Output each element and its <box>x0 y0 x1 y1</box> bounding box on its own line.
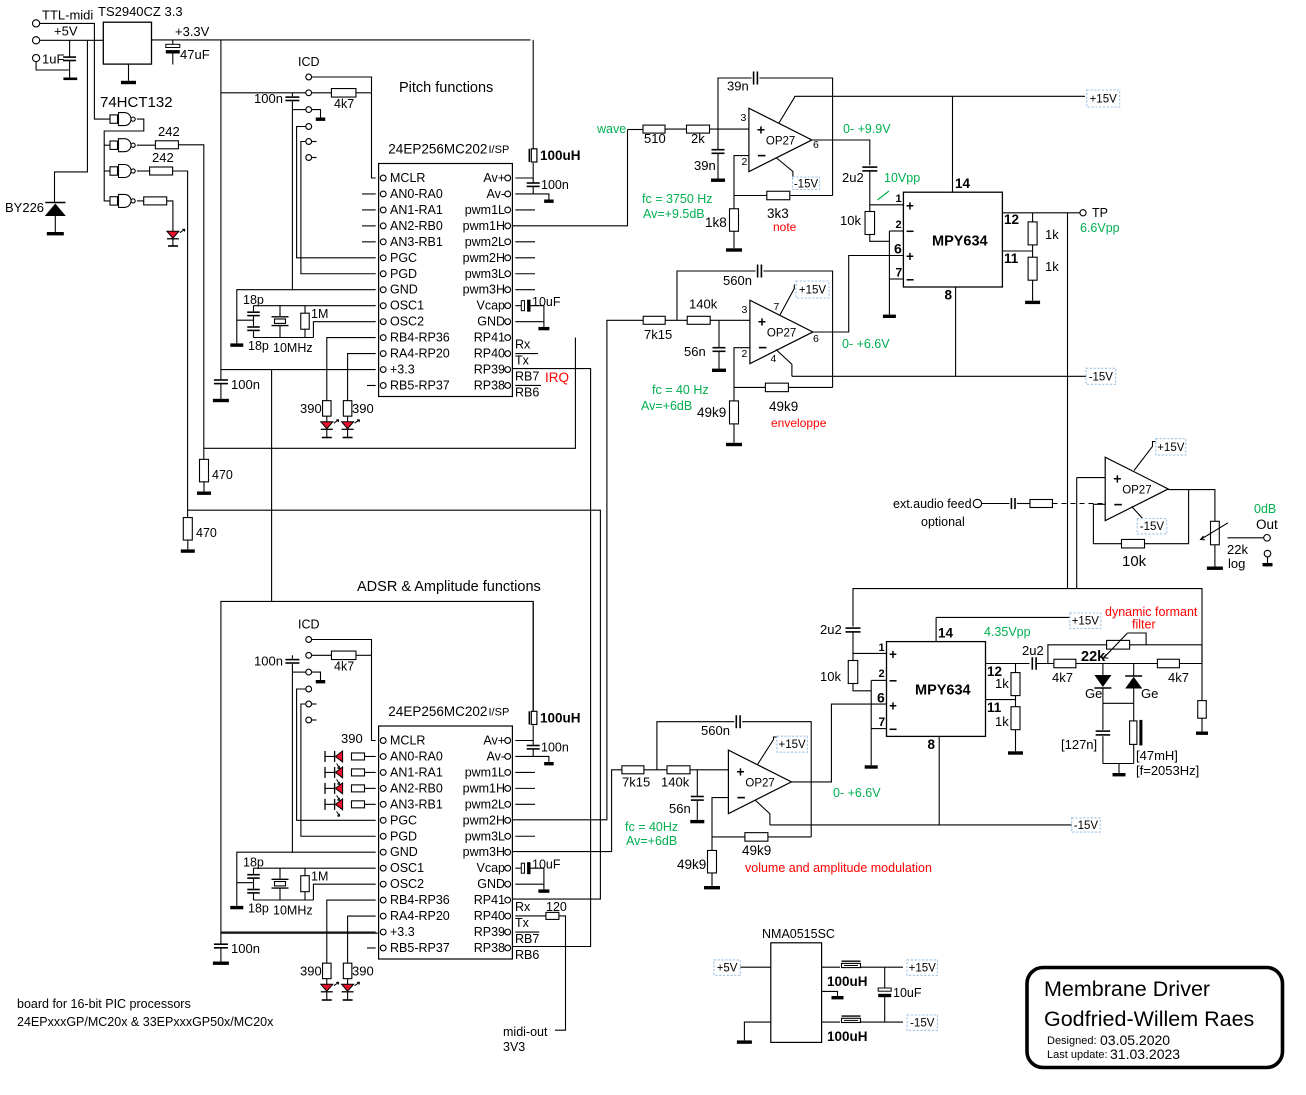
label 242a <box>158 124 180 139</box>
label filter <box>1132 618 1156 632</box>
label 10uF U2 <box>532 858 561 872</box>
capacitor 100n icd1 <box>285 97 299 100</box>
svg-text:1M: 1M <box>311 870 328 884</box>
label RB6 U2 <box>515 948 539 962</box>
svg-text:+: + <box>906 198 914 213</box>
label 470a <box>212 468 233 482</box>
potentiometer 22k log <box>1201 521 1229 545</box>
capacitor 18p b U1 <box>247 327 260 330</box>
svg-text:−: − <box>889 721 897 737</box>
resistor 242b <box>150 167 173 175</box>
connector ICD1 pin1 <box>306 74 312 80</box>
wire Av- hook U1 <box>515 186 533 194</box>
wire 56n stem vol <box>696 770 698 797</box>
svg-text:Out: Out <box>1256 517 1278 532</box>
wire pin7 link mpy2 <box>871 728 886 730</box>
wire LED b lead U1 <box>347 430 349 437</box>
svg-text:7: 7 <box>896 266 903 280</box>
wire 4k7a to diode node <box>1076 663 1158 665</box>
svg-text:4: 4 <box>771 353 777 365</box>
resistor 10k buffer <box>1122 539 1145 548</box>
label pin14 mpy1 <box>955 176 971 191</box>
label 1k b <box>1045 259 1059 274</box>
wire cap to resistor ext <box>1017 503 1030 505</box>
svg-text:6.6Vpp: 6.6Vpp <box>1080 221 1120 235</box>
svg-text:1k: 1k <box>1045 259 1059 274</box>
svg-text:pwm3H: pwm3H <box>463 283 505 297</box>
svg-text:AN3-RB1: AN3-RB1 <box>390 235 443 249</box>
svg-text:PGC: PGC <box>390 813 417 827</box>
wire TP to formant rail <box>1068 213 1203 664</box>
connector ICD1 pin3 <box>306 107 312 113</box>
label 100n c4 <box>231 941 260 956</box>
svg-text:Av-: Av- <box>486 749 505 763</box>
svg-text:TP: TP <box>1092 206 1108 220</box>
svg-text:AN1-RA1: AN1-RA1 <box>390 765 443 779</box>
power +15V box opamp2 <box>796 281 829 298</box>
svg-text:6: 6 <box>894 241 902 257</box>
title Membrane Driver <box>1044 977 1210 1001</box>
connector ICD2 pin5 <box>306 701 312 707</box>
svg-text:GND: GND <box>477 877 505 891</box>
label midi-out <box>503 1025 548 1039</box>
svg-text:14: 14 <box>955 176 971 191</box>
svg-text:AN0-RA0: AN0-RA0 <box>390 749 443 763</box>
svg-text:560n: 560n <box>701 723 730 738</box>
wire Vcap lead U2 <box>515 867 521 869</box>
svg-text:RB6: RB6 <box>515 948 539 962</box>
svg-text:510: 510 <box>644 131 666 146</box>
wire AN3 led terminal U2 <box>324 799 326 810</box>
wire opamp3 -V pin <box>1132 507 1143 519</box>
wire 390a to LED U1 <box>326 416 328 422</box>
crystal 10MHz U2 <box>272 879 289 888</box>
wire 510 to 2k <box>665 128 687 130</box>
wire opamp1 +V pin <box>779 96 795 123</box>
LED midi activity <box>167 229 185 239</box>
connector ICD1 pin4 <box>306 124 312 130</box>
ground BY226 <box>47 232 64 235</box>
capacitor 10uF U2 <box>521 862 530 874</box>
capacitor 56n <box>713 348 726 352</box>
svg-text:RB5-RP37: RB5-RP37 <box>390 378 450 392</box>
label pin2 mpy2 <box>879 668 885 680</box>
svg-text:MPY634: MPY634 <box>932 234 988 250</box>
capacitor 10uF nma <box>878 988 891 997</box>
svg-text:RA4-RP20: RA4-RP20 <box>390 347 450 361</box>
svg-text:RB4-RP36: RB4-RP36 <box>390 893 450 907</box>
wire 18p b lead U1 <box>253 320 255 326</box>
wire opamp1 inv input <box>734 156 749 196</box>
svg-text:10k: 10k <box>820 669 841 684</box>
wire 39n fb right to output <box>759 78 832 196</box>
svg-text:22k: 22k <box>1081 649 1106 665</box>
label 3k3 <box>767 206 789 221</box>
svg-text:10uF: 10uF <box>532 295 561 309</box>
svg-text:2: 2 <box>742 156 748 168</box>
capacitor 56n vol <box>691 797 704 801</box>
wire 242c to LED1 <box>167 201 173 231</box>
svg-text:8: 8 <box>945 288 953 303</box>
svg-text:1: 1 <box>896 193 902 205</box>
resistor 49k9b env <box>730 401 739 424</box>
connector 1uF ground terminal <box>33 55 40 62</box>
wire pot wiper hook <box>1128 633 1147 645</box>
inductor 100uH U2 <box>529 711 537 724</box>
wire 4k71 to MCLR rail <box>356 92 372 94</box>
power +15V box nma <box>907 960 938 975</box>
label 120 <box>546 900 567 914</box>
svg-text:140k: 140k <box>661 775 690 790</box>
svg-text:−: − <box>758 340 767 357</box>
svg-text:56n: 56n <box>669 801 691 816</box>
svg-text:22k: 22k <box>1227 542 1248 557</box>
wire GND right row U1 <box>515 322 544 327</box>
pin PGC U1 <box>380 251 417 265</box>
ground 100n c3 <box>213 399 229 402</box>
svg-text:optional: optional <box>921 515 965 529</box>
wire OSC1 row U2 <box>254 867 376 869</box>
svg-text:1M: 1M <box>311 307 328 321</box>
wire 49k9fb to node env <box>789 386 833 388</box>
svg-text:560n: 560n <box>723 273 752 288</box>
capacitor 18p a U2 <box>247 875 260 878</box>
pin +3.3 U2 <box>380 925 414 939</box>
pin RP41 right U2 <box>474 893 511 907</box>
wire GND row U2 <box>237 852 376 906</box>
label Rx U1 <box>515 338 531 352</box>
resistor 510 <box>643 125 665 133</box>
svg-text:+5V: +5V <box>54 24 78 39</box>
svg-text:-15V: -15V <box>1089 371 1114 383</box>
resistor 390a U2 <box>323 963 332 979</box>
capacitor 560n vol <box>736 715 740 728</box>
pin pwm2H right U2 <box>463 813 511 827</box>
connector Out jack <box>1264 535 1271 542</box>
svg-text:ext.audio feed: ext.audio feed <box>893 497 972 511</box>
pin Av- right U2 <box>486 749 510 763</box>
wire 7k15 to 140k env <box>665 319 687 321</box>
wire 100n av lead U1 <box>532 178 534 183</box>
wire chip2 pwm2H to envelope filter <box>512 320 643 820</box>
label 1k a <box>1045 227 1059 242</box>
wire pot bottom <box>1214 545 1216 567</box>
svg-text:[47mH]: [47mH] <box>1136 748 1178 763</box>
wire 1k8 bottom <box>733 231 735 248</box>
svg-text:−: − <box>906 272 914 288</box>
wire 7k15 to 140k vol <box>644 769 667 771</box>
wire 242a to MIDI bus down <box>178 145 204 449</box>
svg-text:Av=+9.5dB: Av=+9.5dB <box>643 207 705 221</box>
svg-text:11: 11 <box>1004 251 1019 266</box>
wire +3.3V chip2 right branch <box>272 601 534 710</box>
svg-text:RB5-RP37: RB5-RP37 <box>390 941 450 955</box>
svg-text:TS2940CZ 3.3: TS2940CZ 3.3 <box>98 4 183 19</box>
svg-text:Pitch functions: Pitch functions <box>399 80 493 96</box>
svg-text:18p: 18p <box>243 856 264 870</box>
ground 56n vol <box>690 820 704 823</box>
wire nma com pin <box>822 991 838 996</box>
label MPY634 2 <box>915 683 971 699</box>
wire Ge1 bottom lead <box>1102 688 1104 703</box>
label IRQ <box>545 370 569 385</box>
wire LED b lead U2 <box>347 992 349 999</box>
pin pwm1L right U2 <box>465 765 511 779</box>
svg-text:PGD: PGD <box>390 267 417 281</box>
label 100n icd1 <box>254 91 283 106</box>
svg-text:100n: 100n <box>254 654 283 669</box>
diode Ge 1 <box>1094 675 1111 688</box>
svg-text:−: − <box>757 148 766 165</box>
IC U5 MPY634 box <box>903 192 1002 287</box>
annotation green slash <box>878 191 890 200</box>
pin Vcap right U1 <box>477 299 511 313</box>
svg-text:31.03.2023: 31.03.2023 <box>1110 1046 1180 1062</box>
resistor 140k env <box>687 316 710 324</box>
wire RP38 stub U1 <box>515 384 541 386</box>
ground ICD2 <box>316 680 326 683</box>
label 140k vol <box>661 775 690 790</box>
svg-text:12: 12 <box>1004 212 1019 227</box>
label volume and amplitude modulation <box>745 861 932 875</box>
label 100n av U2 <box>541 741 569 755</box>
label 39n fb <box>727 79 749 94</box>
pin RA4-RP20 U1 <box>380 347 449 361</box>
wire icd1 feed <box>221 92 306 94</box>
wire ICD2 pin1 to MCLR pull-up rail <box>312 640 376 741</box>
pin pwm3L right U2 <box>465 829 511 843</box>
diode BY226 <box>45 203 66 217</box>
inductor 100uH b nma <box>842 1016 861 1022</box>
svg-text:2u2: 2u2 <box>842 170 864 185</box>
label 390 U2 leds <box>341 731 363 746</box>
wire 100n c4 bottom <box>220 948 222 962</box>
pin minus 7 mpy1 <box>906 272 914 288</box>
resistor 3k3 <box>767 191 790 200</box>
wire IRQ chip1-RP39 to chip2-RP38 <box>512 369 590 947</box>
svg-text:log: log <box>1228 556 1245 571</box>
pin PGD U2 <box>380 829 417 843</box>
svg-text:49k9: 49k9 <box>697 405 726 420</box>
ground LC tank <box>1113 773 1126 776</box>
wire nma -15 out <box>822 1021 840 1023</box>
label 1k d <box>995 714 1009 729</box>
wire 1M bottom lead U2 <box>304 892 306 900</box>
ground mpy2 inputs <box>865 765 878 768</box>
svg-text:Av+: Av+ <box>483 171 505 185</box>
wire opamp2 output <box>812 256 903 333</box>
inductor 47mH <box>1130 720 1143 746</box>
pin +3.3 U1 <box>380 363 414 377</box>
wire 1k junction <box>1032 245 1034 257</box>
ground Av- U1 <box>544 200 554 203</box>
wire gate A output loop to gates B-D inputs <box>104 119 144 201</box>
pin pwm2L right U1 <box>465 235 511 249</box>
wire 1k junction 2 <box>1015 696 1017 707</box>
wire RB5 stub U2 <box>367 947 376 949</box>
svg-text:note: note <box>773 220 797 234</box>
label pin6 opamp1 <box>813 139 819 151</box>
wire pin8 mpy2 <box>938 736 940 825</box>
label pin1 mpy1 <box>896 193 902 205</box>
ground formant load <box>1196 732 1208 735</box>
wire RA4 to 390b U1 <box>348 354 376 401</box>
svg-text:Av-: Av- <box>486 187 505 201</box>
wire pwm1H stub U2 <box>515 787 535 789</box>
pin pwm1L right U1 <box>465 203 511 217</box>
label RB7 U2 <box>515 932 539 946</box>
svg-text:3k3: 3k3 <box>767 206 789 221</box>
wire 10k b stem <box>852 653 854 660</box>
pin AN3-RB1 U2 <box>380 797 443 811</box>
wire ICD2 pin3 gnd hook <box>312 672 321 680</box>
svg-text:−: − <box>906 223 914 239</box>
pin AN2-RB0 U1 <box>380 219 443 233</box>
resistor 1M U1 <box>301 313 310 329</box>
wire LC gnd stem <box>1118 764 1120 774</box>
svg-text:47uF: 47uF <box>180 47 210 62</box>
wire 1k b to gnd <box>1032 280 1034 301</box>
wire LC bottom rail <box>1103 763 1134 765</box>
ground 470b <box>181 540 195 553</box>
svg-text:56n: 56n <box>684 344 706 359</box>
svg-text:-15V: -15V <box>1140 521 1165 533</box>
wire 1uF bottom lead <box>69 61 71 78</box>
label 100n c3 <box>231 377 260 392</box>
capacitor 100n icd2 <box>285 660 299 663</box>
resistor 390a U1 <box>323 401 332 417</box>
wire mpy2 pin1 feed <box>853 589 1068 627</box>
label 49k9b env <box>697 405 726 420</box>
pin AN0-RA0 U2 <box>380 749 443 763</box>
title box <box>1027 968 1283 1068</box>
svg-text:pwm3L: pwm3L <box>465 267 505 281</box>
wire pwm1L stub U1 <box>515 209 535 211</box>
svg-text:100uH: 100uH <box>827 974 868 989</box>
svg-text:100n: 100n <box>231 941 260 956</box>
wire crystal top lead U1 <box>279 306 281 316</box>
pin OSC1 U1 <box>380 299 424 313</box>
wire 49k9 fb row vol <box>712 836 745 838</box>
label wave <box>596 122 626 136</box>
pin RP39 right U1 <box>474 363 511 377</box>
svg-text:volume and amplitude modulatio: volume and amplitude modulation <box>745 861 932 875</box>
wire nma -15 to box <box>861 1021 904 1023</box>
wire 18p b bottom U1 <box>253 331 255 337</box>
label 560n env <box>723 273 752 288</box>
wire 56n stem <box>718 320 720 347</box>
inductor 100uH U1 <box>529 149 537 162</box>
power +15V box formant <box>1070 613 1101 628</box>
wire 10k buffer to out <box>1145 490 1189 544</box>
label Ge 1 <box>1085 686 1102 701</box>
wire AN0 led row U2 <box>365 755 376 757</box>
pin Av+ right U1 <box>483 171 510 185</box>
svg-text:Godfried-Willem Raes: Godfried-Willem Raes <box>1044 1007 1254 1031</box>
label +3.3V <box>175 24 210 39</box>
terminal LED1 <box>168 245 178 247</box>
wire AN1 stub U1 <box>362 209 376 211</box>
svg-text:GND: GND <box>477 315 505 329</box>
resistor 2k <box>687 125 710 133</box>
capacitor 18p a U1 <box>247 312 260 315</box>
pin RP40 right U2 <box>474 909 511 923</box>
wire pot right leg <box>1130 644 1202 646</box>
svg-text:18p: 18p <box>248 902 269 916</box>
wire nma +15 to box <box>861 966 904 968</box>
pin RP41 right U1 <box>474 331 511 345</box>
wire 47uF bottom lead <box>172 53 174 64</box>
wire 390a to LED U2 <box>326 979 328 985</box>
terminal LED b U2 <box>343 999 353 1001</box>
connector ICD1 pin5 <box>306 139 312 145</box>
label 24EP256MC202 1 <box>388 142 487 157</box>
svg-text:100n: 100n <box>231 377 260 392</box>
resistor 242a <box>155 141 178 149</box>
connector ICD1 pin2 <box>306 90 312 96</box>
wire gate B input stub <box>104 144 110 146</box>
wire AN2 led terminal U2 <box>324 783 326 794</box>
label pin6 mpy1 <box>894 241 902 257</box>
terminal LED a U2 <box>322 999 332 1001</box>
wire Av+ node U1 <box>515 163 533 178</box>
wire ICD2 pin5 stub <box>312 703 317 705</box>
svg-text:10MHz: 10MHz <box>273 904 313 918</box>
label pin8 mpy2 <box>928 737 936 752</box>
svg-text:10uF: 10uF <box>893 986 922 1000</box>
pin pwm2H right U1 <box>463 251 511 265</box>
svg-text:7: 7 <box>774 301 780 313</box>
svg-text:7: 7 <box>879 715 886 729</box>
resistor 120 <box>546 912 559 919</box>
ground TS2940 GND pin <box>121 64 136 84</box>
label 10k b <box>820 669 841 684</box>
wire crystal bottom lead U2 <box>279 888 281 900</box>
wire BY226 cathode to ground <box>54 216 56 232</box>
label Out <box>1256 517 1278 532</box>
svg-text:+3.3V: +3.3V <box>175 24 210 39</box>
wire +3.3 row U1 <box>221 369 376 371</box>
svg-text:242: 242 <box>158 124 180 139</box>
label Tx U1 <box>515 354 530 368</box>
wire crystal bottom lead U1 <box>279 326 281 338</box>
svg-text:100n: 100n <box>541 178 569 192</box>
wire pwm2L stub U1 <box>515 241 535 243</box>
wire opamp1 output <box>812 140 870 165</box>
svg-text:OSC1: OSC1 <box>390 299 424 313</box>
wire 1uF top lead <box>69 40 71 57</box>
svg-text:49k9: 49k9 <box>769 399 798 414</box>
svg-text:OP27: OP27 <box>767 328 796 340</box>
resistor 7k15 vol <box>622 766 644 774</box>
capacitor 560n env <box>758 265 762 278</box>
wire Av+ node U2 <box>515 726 533 741</box>
wire 2u2a to pin1 <box>870 171 904 205</box>
label TS2940CZ 3.3 <box>98 4 183 19</box>
svg-text:wave: wave <box>596 122 626 136</box>
wire 1M top lead U2 <box>304 868 306 876</box>
wire LED a lead U2 <box>326 992 328 999</box>
pin OSC2 U2 <box>380 877 424 891</box>
IC U8 MPY634 box <box>887 642 986 737</box>
resistor 1k8 <box>730 209 739 232</box>
connector ICD2 pin3 <box>306 669 312 675</box>
svg-text:0- +6.6V: 0- +6.6V <box>833 786 881 800</box>
svg-text:RA4-RP20: RA4-RP20 <box>390 909 450 923</box>
svg-text:10Vpp: 10Vpp <box>884 171 920 185</box>
wire RB4 to 390a U2 <box>327 900 376 963</box>
label 1k c <box>995 676 1009 691</box>
